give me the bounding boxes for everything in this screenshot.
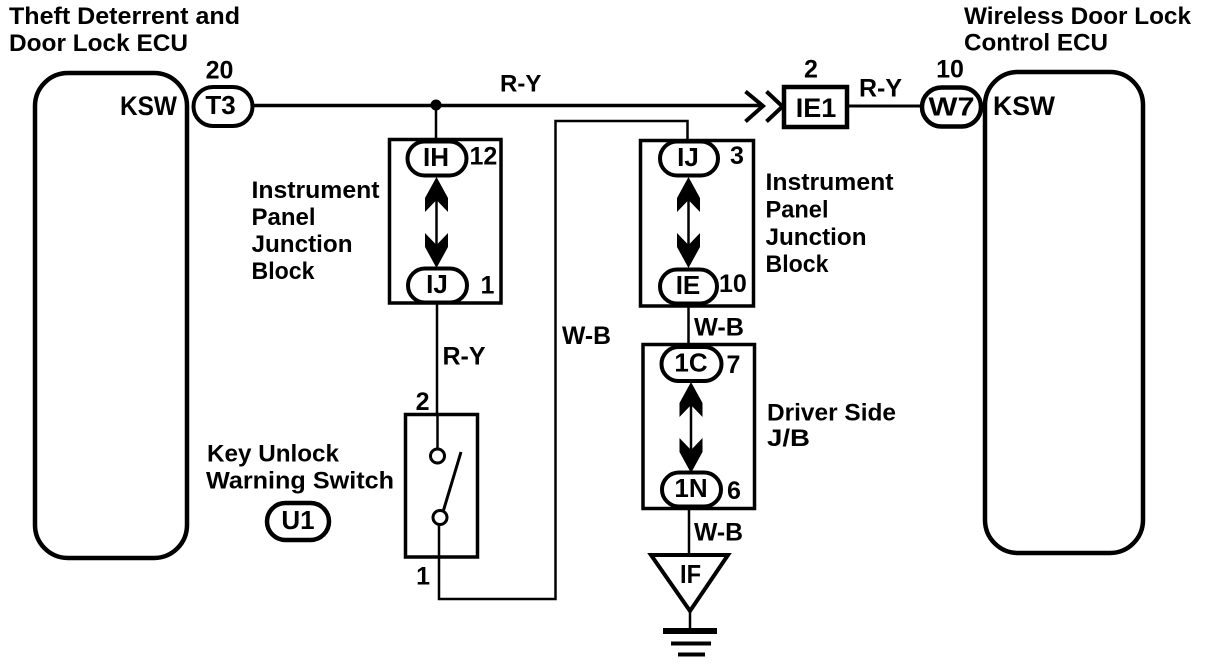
svg-text:10: 10 xyxy=(936,56,964,84)
svg-text:IJ: IJ xyxy=(677,142,699,172)
switch lever xyxy=(443,452,461,512)
wire R-Y from IJ to switch pin 2 xyxy=(437,303,486,414)
svg-text:3: 3 xyxy=(730,142,744,170)
svg-text:KSW: KSW xyxy=(120,91,177,121)
svg-text:KSW: KSW xyxy=(993,91,1055,121)
pin 2 label (switch) xyxy=(416,388,430,416)
connector arrows (male >>) xyxy=(746,92,783,122)
svg-text:IE1: IE1 xyxy=(796,93,837,123)
svg-text:IF: IF xyxy=(680,559,701,589)
wire R-Y from T3 to connector arrows xyxy=(254,104,762,108)
switch contact bottom xyxy=(433,511,447,525)
svg-text:20: 20 xyxy=(206,57,234,85)
svg-text:Wireless Door Lock: Wireless Door Lock xyxy=(964,3,1191,30)
svg-text:10: 10 xyxy=(719,270,747,298)
junction block: Driver Side J/B xyxy=(643,345,755,509)
svg-text:Block: Block xyxy=(252,258,316,285)
svg-text:Instrument: Instrument xyxy=(766,169,894,196)
junction block right: Instrument Panel Junction Block xyxy=(641,141,754,307)
svg-text:R-Y: R-Y xyxy=(859,75,902,103)
svg-text:Driver Side: Driver Side xyxy=(767,400,896,427)
svg-text:W-B: W-B xyxy=(694,519,743,547)
ECU right: Wireless Door Lock Control ECU body xyxy=(985,72,1143,553)
connector IJ pin 3 xyxy=(660,142,744,176)
connector U1 xyxy=(267,503,329,540)
svg-text:7: 7 xyxy=(727,351,741,379)
node: junction dot xyxy=(431,100,442,111)
svg-text:Panel: Panel xyxy=(766,197,829,224)
svg-text:1N: 1N xyxy=(674,473,707,503)
svg-text:Control ECU: Control ECU xyxy=(964,30,1108,57)
wire: junction to IH xyxy=(435,105,438,142)
svg-text:Block: Block xyxy=(766,251,830,278)
svg-text:IE: IE xyxy=(676,270,701,300)
svg-text:Door Lock ECU: Door Lock ECU xyxy=(9,30,188,57)
svg-text:W7: W7 xyxy=(929,92,975,122)
svg-text:1C: 1C xyxy=(674,348,707,378)
junction block left: Instrument Panel Junction Block xyxy=(390,140,502,304)
switch contact top xyxy=(431,449,445,463)
wire W-B from 1N to ground IF xyxy=(689,507,743,556)
connector T3 pin 20 xyxy=(194,57,253,127)
svg-text:Panel: Panel xyxy=(252,204,316,231)
wire W-B from switch pin 1 up to IJ (right block) xyxy=(439,121,688,599)
pass-through arrow (right block) xyxy=(677,177,700,268)
connector W7 pin 10 xyxy=(922,56,981,127)
wire label W-B (middle) xyxy=(562,322,611,350)
svg-text:T3: T3 xyxy=(205,90,235,120)
svg-text:W-B: W-B xyxy=(694,314,744,342)
connector IE pin 10 xyxy=(660,270,747,304)
ground connector IF triangle xyxy=(651,555,728,611)
label: Instrument Panel Junction Block (left) xyxy=(252,177,380,285)
switch wire out of contact xyxy=(438,524,441,558)
connector 1C pin 7 xyxy=(662,347,741,381)
svg-text:6: 6 xyxy=(727,477,741,505)
ECU left: Theft Deterrent and Door Lock ECU body xyxy=(35,73,187,558)
svg-text:Junction: Junction xyxy=(252,231,353,258)
pass-through arrow (driver side J/B) xyxy=(680,382,703,473)
ground symbol xyxy=(663,609,717,655)
svg-text:2: 2 xyxy=(804,56,818,84)
label: Key Unlock Warning Switch xyxy=(206,441,394,495)
svg-text:J/B: J/B xyxy=(767,425,810,452)
connector IE1 pin 2 xyxy=(784,56,847,128)
svg-text:W-B: W-B xyxy=(562,322,611,350)
connector 1N pin 6 xyxy=(662,473,741,507)
svg-text:Key Unlock: Key Unlock xyxy=(207,441,340,468)
svg-text:Instrument: Instrument xyxy=(252,177,380,204)
switch wire into contact xyxy=(436,414,439,449)
connector IH pin 12 xyxy=(408,142,498,176)
svg-text:U1: U1 xyxy=(281,505,314,535)
label: Wireless Door Lock Control ECU xyxy=(964,3,1191,57)
svg-text:R-Y: R-Y xyxy=(443,343,486,371)
svg-text:1: 1 xyxy=(481,272,495,300)
wire R-Y from IE1 to W7 xyxy=(849,75,920,107)
label: Theft Deterrent and Door Lock ECU xyxy=(9,3,240,57)
svg-text:R-Y: R-Y xyxy=(500,71,541,98)
switch U1: Key Unlock Warning Switch body xyxy=(406,415,478,558)
svg-text:Junction: Junction xyxy=(766,224,867,251)
svg-text:Warning Switch: Warning Switch xyxy=(206,468,394,495)
wire W-B from IE to 1C xyxy=(689,304,745,344)
pass-through arrow (left block) xyxy=(425,177,448,268)
connector IJ pin 1 xyxy=(408,269,495,303)
svg-text:Theft Deterrent and: Theft Deterrent and xyxy=(9,3,240,30)
svg-text:2: 2 xyxy=(416,388,430,416)
svg-text:1: 1 xyxy=(416,563,430,591)
pin 1 label (switch) xyxy=(416,563,430,591)
svg-text:IJ: IJ xyxy=(426,269,448,299)
label: Driver Side J/B xyxy=(767,400,896,453)
svg-text:IH: IH xyxy=(423,142,449,172)
label: Instrument Panel Junction Block (right) xyxy=(766,169,894,278)
svg-text:12: 12 xyxy=(470,143,498,171)
wire label R-Y top xyxy=(500,71,541,98)
